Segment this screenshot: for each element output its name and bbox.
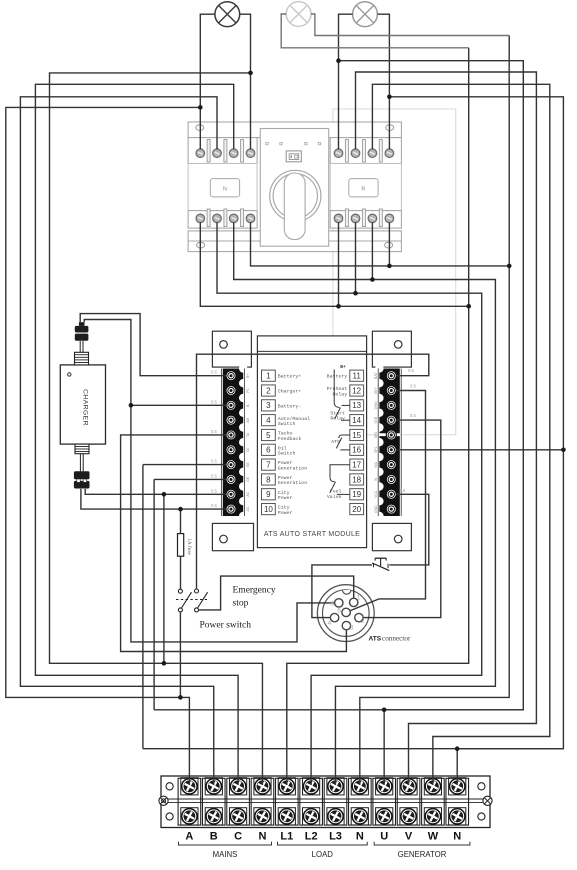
relay contact start (13-14) [333,370,335,403]
svg-text:7: 7 [266,461,271,470]
terminal separator fins top [207,140,210,163]
svg-text:0.5: 0.5 [408,368,414,373]
transfer switch bottom-left mounting slot [197,242,205,248]
svg-text:1A fuse: 1A fuse [186,538,193,555]
module mounting tab top-right [372,331,411,367]
wire load L3 right-drop [371,222,373,279]
strip unit L1 [276,778,299,825]
svg-text:17: 17 [352,461,361,470]
wire mains A run [6,107,201,785]
junction N mains / row9 drop [162,661,167,666]
wire load L1 right-drop [338,222,340,306]
transfer switch left bottom terminal block [188,211,257,229]
module terminal 2 [226,386,236,396]
emergency stop button SB1 [375,557,386,559]
wire gen N bottom [143,748,564,750]
strip unit L2 [300,778,323,825]
switch status window icon [286,151,301,162]
module terminal 19 [386,489,396,499]
svg-text:N: N [223,187,227,193]
terminal Q1 N (mains N) [246,149,255,158]
wire gen U bottom [154,709,523,711]
module output box 11 [350,370,364,381]
connector pin 2 [355,613,363,621]
transfer switch top-left mounting slot [196,125,204,131]
svg-text:0.5: 0.5 [410,383,416,388]
lamp HL2 (load indicator) [286,2,311,27]
svg-text:Tacho: Tacho [278,431,293,437]
junction gen N / strip N [455,746,460,751]
junction load N / lamp2 vertical [507,264,512,269]
power switch coupling [176,599,207,601]
svg-text:B+: B+ [246,374,250,378]
svg-text:Battery-: Battery- [278,403,302,409]
wire battery- tee to row3 [131,404,226,406]
svg-text:Preheat: Preheat [327,386,348,392]
wire row9 to mains N [163,494,165,663]
terminal strip right cap holes [478,783,485,790]
module mounting hole bottom-right [394,535,402,543]
wire module rows 7 stub [143,464,226,466]
terminal Q1 3R2 (gen V) [351,149,360,158]
svg-text:AC: AC [246,491,250,496]
svg-text:V: V [405,831,413,843]
svg-text:CHARGER: CHARGER [82,389,89,426]
svg-text:13: 13 [352,401,361,410]
svg-text:6: 6 [337,607,341,614]
svg-text:Battery: Battery [327,374,348,380]
module input box 10 [262,503,276,514]
svg-text:0.5: 0.5 [211,503,217,508]
lamp HL1 (mains indicator) [215,2,240,27]
svg-text:GE: GE [246,461,250,467]
ATS connector inner [323,590,370,637]
strip unit V [397,778,420,825]
svg-text:DWN: DWN [374,401,378,410]
junction load L1 right drop [336,304,341,309]
charger bottom plug stem [79,454,81,472]
svg-text:TA: TA [246,432,250,437]
junction load N right drop [387,264,392,269]
strip unit N [349,778,372,825]
wire gen N feed to module row7 [142,465,144,749]
transfer switch left top terminal block [188,138,257,164]
svg-text:Relay: Relay [330,416,345,422]
group bracket MAINS [179,842,272,845]
junction load L3 right drop [370,277,375,282]
svg-text:20: 20 [352,505,361,514]
module terminal 6 [226,445,236,455]
module mounting tab bottom-left [212,523,253,550]
svg-text:0.5: 0.5 [211,399,217,404]
wire load L3 switch-left drop [234,222,496,785]
svg-text:GE: GE [246,476,250,482]
svg-text:KEY: KEY [374,386,378,394]
svg-text:Generation: Generation [278,480,307,486]
wire charger AC1 to row9 [85,489,226,494]
module input box 7 [262,459,276,470]
connector pin 5 [335,599,343,607]
wire load L2 right-drop [355,222,357,293]
svg-text:0.5: 0.5 [211,370,217,375]
wire load L2 switch-left drop [217,222,482,785]
junction gen U / strip U [382,708,387,713]
wire lamp HL2 right lead [311,14,509,36]
terminal Q1 4T2R [351,214,360,223]
svg-text:Charger+: Charger+ [278,389,302,395]
svg-text:C: C [234,831,242,843]
wire gen V run [356,72,537,785]
wire charger AC2 to row10 [81,489,226,509]
svg-text:2: 2 [361,618,365,625]
svg-text:Oil: Oil [278,445,287,451]
svg-text:B+: B+ [340,364,346,370]
wire power switch to pin1 [199,576,354,610]
lamp HL3 (generator indicator) [353,2,378,27]
terminal Q1 1L1 (mains A) [196,149,205,158]
svg-text:14: 14 [352,416,361,425]
svg-text:R: R [361,187,365,193]
module main box [257,336,366,548]
module terminal 14 [386,415,396,425]
wire lamp HL2 left lead [281,14,469,48]
svg-text:BAT: BAT [374,373,378,379]
svg-text:L1: L1 [280,831,293,843]
charger bottom strain relief [75,444,89,454]
switch rotary handle [284,173,305,240]
module terminal 15 [386,430,396,440]
wire load N upper vertical [508,36,510,266]
module mounting hole top-left [220,341,228,349]
strip unit B [202,778,225,825]
svg-text:W: W [428,831,439,843]
transfer switch right top terminal block [330,138,401,164]
svg-text:12: 12 [352,386,361,395]
module terminal 7 [226,460,236,470]
svg-text:N: N [356,831,364,843]
svg-text:B-: B- [246,404,250,407]
module output box 12 [350,385,364,396]
relay contact ATS (15-16) [342,434,350,436]
transfer switch top-right mounting slot [386,125,394,131]
terminal separator fins bottom [207,209,210,227]
ATS connector X1 outer [317,585,374,642]
svg-text:Power: Power [278,475,293,481]
wire lamp HL1 left lead [200,14,215,149]
svg-text:2: 2 [266,386,271,395]
wire row11 B+ feed [197,354,429,589]
module mounting tab top-left [212,331,251,367]
wire row14 to pin2 [360,420,441,617]
svg-text:U: U [380,831,388,843]
wire gen W run [372,84,549,785]
junction load L2 right drop [353,291,358,296]
module mounting hole top-right [394,341,402,349]
svg-text:City: City [278,505,290,511]
svg-text:18: 18 [352,475,361,484]
module terminal 13 [386,400,396,410]
module left terminal strip [223,369,243,517]
svg-text:16: 16 [352,446,361,455]
strip unit L3 [324,778,347,825]
module output box 15 [350,429,364,440]
svg-text:Switch: Switch [278,451,296,457]
transfer switch left mid panel [188,164,257,211]
svg-text:N: N [453,831,461,843]
svg-text:19: 19 [352,490,361,499]
svg-text:Power: Power [278,510,293,516]
wire lamp HL3 right lead [377,14,389,149]
terminal strip left cap holes [166,783,173,790]
wire load L1 vertical [287,48,469,785]
module terminal 1 [226,371,236,381]
ATS connector key notch [343,590,351,594]
svg-text:L2: L2 [305,831,318,843]
strip unit C [227,778,250,825]
terminal Q1 NT (load N) [246,214,255,223]
wire row19 to estop [389,494,429,565]
wire gen U feed to module row8 [153,479,155,709]
charger top plug stem [79,341,81,352]
svg-text:9: 9 [266,490,271,499]
wire load N switch-left drop [251,222,510,266]
module terminal 4 [226,415,236,425]
svg-text:3: 3 [266,401,271,410]
module header line [257,350,366,352]
transfer switch bottom-right mounting slot [385,242,393,248]
wire pin6 diagonal [346,599,379,613]
svg-text:City: City [278,490,290,496]
wire charger to battery- row3 [84,320,339,642]
terminal Q1 1R1 (gen U) [334,149,343,158]
terminal Q1 NTR [385,214,394,223]
strip unit A [178,778,201,825]
module terminal 9 [226,489,236,499]
terminal strip left cap screw [159,796,168,805]
svg-text:STB: STB [374,416,378,423]
module terminal 11 [386,371,396,381]
module terminal 20 [386,504,396,514]
svg-text:B: B [210,831,218,843]
svg-text:0.5: 0.5 [410,413,416,418]
terminal Q1 2T1 (load L1) [196,214,205,223]
svg-text:GENERATOR: GENERATOR [398,850,447,859]
switch centre module body [260,129,328,247]
module output box 17 [350,459,364,470]
svg-text:A: A [185,831,193,843]
module terminal 8 [226,474,236,484]
connector pin 3 [342,621,350,629]
module output box 19 [350,489,364,500]
svg-text:LOAD: LOAD [312,850,334,859]
power switch blade 1 [182,592,192,608]
terminal Q1 3L2 (mains B) [213,149,222,158]
terminal strip mid rails [161,798,490,800]
transfer switch right mid panel [330,164,401,211]
group bracket LOAD [278,842,368,845]
svg-text:1: 1 [357,594,361,601]
strip unit W [422,778,445,825]
module output box 18 [350,474,364,485]
charger bottom plug body [74,471,90,479]
svg-text:Feedback: Feedback [278,436,302,442]
terminal Q1 5L3 (mains C) [229,149,238,158]
transfer switch right bottom terminal block [330,211,401,229]
wire row5 tacho to pin3 [121,435,347,652]
svg-text:10: 10 [264,505,273,514]
connector pin 6 [342,608,350,616]
svg-text:Emergency: Emergency [233,586,276,596]
svg-text:0.5: 0.5 [400,488,406,493]
wire estop to pin4 [312,565,372,618]
terminal Q1 4T2 (load L2) [213,214,222,223]
junction load L1 / lamp2 vertical [466,304,471,309]
module input box 4 [262,415,276,426]
svg-text:6: 6 [266,446,271,455]
wire switch pole1 to mains A [179,612,181,698]
module input box 2 [262,385,276,396]
module terminal 16 [386,445,396,455]
module input box 8 [262,474,276,485]
junction row16 / gen N bus [561,448,566,453]
svg-text:15: 15 [352,431,361,440]
module terminal 5 [226,430,236,440]
strip unit N [446,778,469,825]
connector pin 1 [350,598,358,606]
svg-text:Battery+: Battery+ [278,374,302,380]
svg-text:11: 11 [353,372,362,381]
terminal strip right cap screw [483,796,492,805]
svg-text:5: 5 [330,600,334,607]
module output box 13 [350,400,364,411]
wire row12 to pin6 [379,391,426,599]
charger top strain relief [75,352,89,365]
module output box 16 [350,444,364,455]
wire charger to battery+ row1 [80,314,226,376]
svg-text:P1: P1 [246,388,250,392]
wire lamp HL3 left lead [339,14,353,149]
svg-text:N: N [258,831,266,843]
svg-text:SP2: SP2 [374,432,378,439]
junction row9 / N drop [162,492,167,497]
wire load L1 switch-left drop [200,222,468,306]
svg-text:1: 1 [266,372,271,381]
wire mains N run [50,73,263,785]
group bracket GENERATOR [374,842,470,845]
svg-text:5: 5 [266,431,271,440]
power switch blade 2 [198,592,208,608]
panel outline (faint rectangle) [333,109,456,435]
module input box 9 [262,489,276,500]
switch centre tiny indicator squares [266,142,268,144]
transfer switch bottom flange mid line [188,240,401,242]
terminal Q1 NR (gen N) [385,149,394,158]
terminal Q1 5R3 (gen W) [368,149,377,158]
wire row10 fuse drop [180,509,182,533]
svg-text:L3: L3 [329,831,342,843]
svg-text:Power: Power [278,495,293,501]
wire load N vertical-lower [360,266,509,785]
switch rotary knob inner [273,174,317,218]
svg-text:4: 4 [328,620,332,627]
terminal Q1 6T3 (load L3) [229,214,238,223]
module right terminal strip [379,369,399,517]
svg-text:Auto/Manual: Auto/Manual [278,416,310,422]
wire row16 to gen N bus [396,449,563,451]
module terminal 12 [386,386,396,396]
svg-text:Generation: Generation [278,465,307,471]
svg-text:AC: AC [246,506,250,511]
junction mains A / fuse chain [178,695,183,700]
svg-text:ATS AUTO START MODULE: ATS AUTO START MODULE [264,531,360,538]
transfer switch bottom flange [188,231,401,252]
charger top plug body [75,334,89,341]
panel outline white over strip [379,433,401,436]
svg-text:8: 8 [266,475,271,484]
svg-text:MAINS: MAINS [213,850,238,859]
switch rotary knob outer [270,170,321,221]
switch N position label box [210,179,239,197]
svg-text:stop: stop [233,599,249,609]
terminal Q1 2T1R [334,214,343,223]
module terminal 18 [386,474,396,484]
terminal Q1 6T3R [368,214,377,223]
module output box 14 [350,415,364,426]
switch R position label box [349,179,378,197]
svg-text:Power switch: Power switch [200,621,252,631]
wire lamp HL1 right lead [240,14,251,149]
terminal strip body [161,776,490,828]
svg-text:OL: OL [246,447,250,452]
module input box 3 [262,400,276,411]
strip unit U [373,778,396,825]
svg-text:N/C: N/C [374,461,378,467]
svg-text:Switch: Switch [278,421,296,427]
power switch S1 contacts [178,589,182,593]
junction lamp3 left / gen U [336,58,341,63]
module terminal 3 [226,400,236,410]
module input box 1 [262,370,276,381]
connector pin 4 [330,613,338,621]
module terminal 10 [226,504,236,514]
wire load N right-drop [388,222,390,266]
module input box 5 [262,429,276,440]
wire fuse to switch pole1 [180,556,182,589]
svg-text:connector: connector [382,635,411,643]
fuse F1 1A [178,534,184,557]
relay contact fuel (17-19) [330,465,350,478]
svg-text:0.5: 0.5 [211,459,217,464]
module output box 20 [350,503,364,514]
wire module rows 8 stub [154,478,226,480]
svg-text:SP1: SP1 [374,446,378,453]
transfer switch Q1 body top flange [188,122,401,138]
svg-text:ATS: ATS [369,636,382,643]
charger pilot hole [68,373,71,376]
module mounting tab bottom-right [372,523,411,550]
svg-text:AM: AM [246,417,250,422]
svg-text:0.5: 0.5 [211,473,217,478]
svg-text:GND: GND [374,505,378,513]
svg-text:Power: Power [278,460,293,466]
svg-text:0.5: 0.5 [211,488,217,493]
module mounting hole bottom-left [220,535,228,543]
wire gen U run [339,61,524,785]
module terminal 17 [386,460,396,470]
junction lamp3 right / gen N [387,95,392,100]
svg-text:VCC: VCC [374,490,378,498]
junction row10 / fuse [178,507,183,512]
